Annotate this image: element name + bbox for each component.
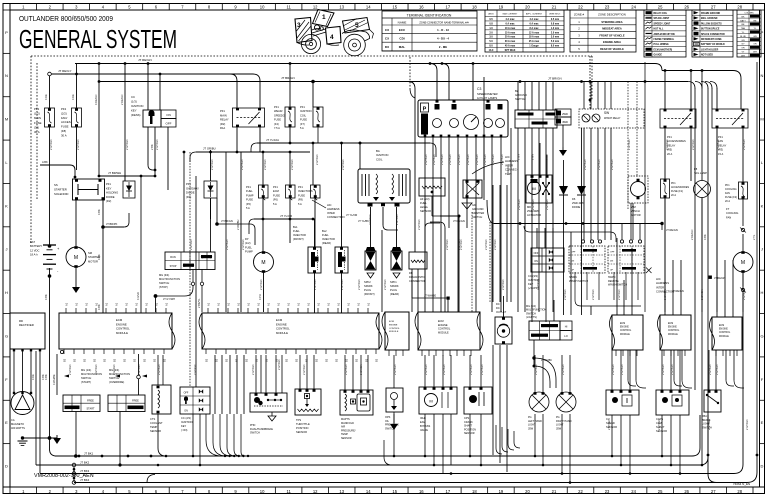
- svg-text:2 GY/GN: 2 GY/GN: [466, 154, 470, 165]
- coil mid wire: [382, 207, 384, 225]
- svg-text:PF1: PF1: [106, 182, 111, 186]
- svg-text:B2: B2: [285, 358, 289, 362]
- winch relay feeds: [583, 82, 585, 110]
- BA feed: [359, 143, 361, 169]
- svg-text:PHN: PHN: [250, 424, 255, 427]
- svg-text:16: 16: [419, 4, 424, 9]
- mid verticals group: [195, 176, 197, 387]
- svg-text:COIL: COIL: [376, 157, 383, 161]
- svg-text:JT BK4: JT BK4: [80, 478, 90, 482]
- wire x445 winch: [444, 228, 446, 312]
- svg-text:2 GY/GN: 2 GY/GN: [742, 289, 746, 300]
- svg-text:JT YL/OR: JT YL/OR: [346, 213, 357, 217]
- B2 feeds: [517, 82, 519, 111]
- svg-text:REAR OF VEHICLE: REAR OF VEHICLE: [600, 47, 624, 51]
- svg-text:M: M: [5, 117, 8, 122]
- svg-text:24: 24: [631, 4, 636, 9]
- svg-text:MAPTS: MAPTS: [341, 418, 350, 421]
- svg-text:CX: CX: [385, 28, 389, 32]
- svg-text:2 GY/GN: 2 GY/GN: [225, 239, 229, 250]
- svg-text:SWITCH: SWITCH: [472, 215, 482, 219]
- svg-text:KEY: KEY: [106, 186, 112, 190]
- svg-text:B2: B2: [133, 358, 137, 362]
- svg-text:ECC: ECC: [399, 28, 406, 32]
- ECM box 4: [612, 315, 643, 350]
- svg-text:SPLICE CONNECTOR: SPLICE CONNECTOR: [701, 34, 725, 36]
- zone dashed vertical left a: [30, 56, 32, 243]
- svg-text:ECM: ECM: [438, 320, 444, 323]
- right long wires: [694, 88, 696, 390]
- svg-text:RECTIFIER: RECTIFIER: [19, 323, 34, 327]
- cooling fan FT: [742, 199, 744, 226]
- spark plug SPK1 rear: [396, 207, 398, 247]
- svg-text:A1: A1: [287, 302, 291, 306]
- svg-text:JT WH/BE: JT WH/BE: [424, 294, 436, 298]
- svg-text:COOLANT: COOLANT: [150, 421, 163, 425]
- svg-text:2 GY/GN: 2 GY/GN: [259, 279, 263, 290]
- wire x430 drop: [425, 223, 432, 228]
- bottom bus junction dots: [192, 455, 195, 458]
- svg-text:23: 23: [605, 489, 610, 494]
- svg-text:2 GY/GN: 2 GY/GN: [531, 199, 535, 210]
- svg-text:D: D: [761, 463, 764, 468]
- svg-text:CONTROL: CONTROL: [620, 330, 632, 332]
- svg-text:(1/2): (1/2): [34, 112, 40, 116]
- svg-text:APPL. CURRENT: APPL. CURRENT: [526, 13, 543, 16]
- svg-text:JT RE/GN: JT RE/GN: [666, 228, 678, 232]
- diagnostic connector DB: [409, 252, 427, 269]
- svg-text:2 BK/YL: 2 BK/YL: [197, 298, 201, 308]
- svg-text:JT BR/PK: JT BR/PK: [106, 222, 118, 226]
- svg-text:28: 28: [737, 4, 742, 9]
- svg-text:TPS: TPS: [296, 418, 301, 422]
- MG 4/4 outputs to lamps: [533, 340, 535, 366]
- svg-text:FAN/: FAN/: [61, 116, 67, 120]
- svg-text:NAME: NAME: [398, 20, 407, 24]
- svg-text:(F8): (F8): [298, 198, 303, 202]
- ECM main box B: [202, 313, 379, 349]
- table zone description: [570, 10, 636, 52]
- svg-text:13: 13: [339, 4, 344, 9]
- svg-text:SPLICE JOINT: SPLICE JOINT: [654, 18, 670, 20]
- svg-text:FUEL: FUEL: [245, 245, 252, 249]
- svg-text:2 GY/GN: 2 GY/GN: [424, 364, 428, 375]
- svg-text:MODULE: MODULE: [438, 331, 449, 334]
- svg-text:JT BR/GN: JT BR/GN: [281, 76, 295, 80]
- wires key drop: [147, 63, 149, 110]
- bus JT BR/GN upper: [99, 81, 408, 83]
- svg-text:FUEL: FUEL: [322, 233, 329, 237]
- svg-text:2 GY/GN: 2 GY/GN: [657, 419, 661, 430]
- svg-text:PF1: PF1: [246, 185, 251, 189]
- svg-text:DN: DN: [571, 261, 575, 263]
- svg-text:22: 22: [578, 4, 583, 9]
- module row bottom pin ticks: [388, 350, 390, 356]
- svg-text:2 GY/GN: 2 GY/GN: [742, 139, 746, 150]
- fuse PF1 accessories fuse: [661, 179, 670, 198]
- svg-text:& PILOT LAMPS: & PILOT LAMPS: [477, 96, 497, 100]
- svg-text:VALVE: VALVE: [420, 428, 428, 432]
- svg-text:A1: A1: [165, 302, 169, 306]
- svg-text:ON: ON: [534, 260, 538, 263]
- svg-text:2 GY/GN: 2 GY/GN: [340, 279, 344, 290]
- svg-text:2 GY/GN: 2 GY/GN: [561, 364, 565, 375]
- svg-text:B2: B2: [235, 358, 239, 362]
- svg-text:PRESSURE/: PRESSURE/: [341, 429, 356, 432]
- svg-text:2 GY/GN: 2 GY/GN: [383, 279, 387, 290]
- svg-text:2 GY/GN: 2 GY/GN: [745, 419, 749, 430]
- svg-text:K: K: [761, 203, 764, 208]
- svg-text:10 A max: 10 A max: [505, 27, 516, 30]
- svg-text:B2: B2: [265, 358, 269, 362]
- svg-text:J: J: [6, 247, 8, 252]
- svg-text:LEVEL: LEVEL: [420, 205, 429, 209]
- svg-text:R1A: R1A: [220, 126, 225, 130]
- bus secondary right mid: [530, 231, 610, 233]
- svg-text:14: 14: [366, 489, 371, 494]
- svg-text:KEY: KEY: [528, 282, 533, 286]
- svg-text:A1: A1: [317, 302, 321, 306]
- svg-text:SENSOR: SENSOR: [420, 209, 431, 213]
- svg-text:5 A: 5 A: [246, 206, 250, 210]
- wire x511 long: [510, 128, 512, 302]
- junction square JT RE/GN right: [709, 276, 712, 279]
- svg-text:K: K: [5, 203, 8, 208]
- svg-text:4 - DX - 4: 4 - DX - 4: [437, 37, 449, 41]
- svg-text:(F4): (F4): [274, 122, 279, 126]
- svg-text:2WD: 2WD: [562, 112, 568, 116]
- svg-text:3.0 mm: 3.0 mm: [551, 36, 559, 39]
- svg-text:2 GY/GN: 2 GY/GN: [517, 199, 521, 210]
- svg-text:B2: B2: [83, 358, 87, 362]
- winch rocker switch SWRN: [569, 246, 605, 273]
- wire feed solenoid horizontal: [40, 164, 70, 166]
- svg-text:B2: B2: [325, 358, 329, 362]
- svg-text:MAX CURRENT: MAX CURRENT: [503, 13, 518, 16]
- svg-text:OFF: OFF: [166, 122, 172, 126]
- svg-text:LIGHT: LIGHT: [556, 424, 564, 427]
- svg-text:OFF: OFF: [610, 252, 615, 254]
- svg-text:PF1: PF1: [186, 182, 191, 186]
- svg-text:PF1: PF1: [725, 184, 730, 187]
- svg-text:FT: FT: [726, 207, 730, 211]
- svg-text:JT RE/GN: JT RE/GN: [714, 277, 726, 280]
- svg-text:HIC: HIC: [327, 203, 332, 207]
- svg-text:2 GY/GN: 2 GY/GN: [210, 159, 214, 170]
- svg-text:PF1: PF1: [667, 135, 672, 139]
- svg-text:SPK2: SPK2: [364, 280, 371, 284]
- svg-text:B2: B2: [93, 358, 97, 362]
- svg-text:JT BR/WH: JT BR/WH: [108, 171, 121, 175]
- svg-text:MODULE: MODULE: [389, 331, 399, 333]
- svg-text:FAN: FAN: [726, 215, 731, 219]
- svg-text:CONTROL: CONTROL: [438, 328, 451, 331]
- svg-text:SWITCH: SWITCH: [526, 312, 536, 315]
- starter motor SM: [66, 247, 86, 267]
- svg-text:5: 5: [355, 22, 359, 29]
- svg-text:MAL: MAL: [399, 45, 406, 49]
- svg-text:A1: A1: [367, 302, 371, 306]
- svg-text:A1: A1: [277, 302, 281, 306]
- ECM box 5: [660, 315, 691, 350]
- svg-text:1 - D - 13: 1 - D - 13: [437, 28, 449, 32]
- svg-text:B2: B2: [73, 358, 77, 362]
- svg-text:ENGINE: ENGINE: [620, 327, 629, 329]
- svg-text:PUMP: PUMP: [245, 250, 253, 254]
- svg-text:2 RE/GN: 2 RE/GN: [690, 229, 694, 240]
- svg-text:2 GY/GN: 2 GY/GN: [707, 419, 711, 430]
- svg-text:HARNESS: HARNESS: [656, 281, 669, 285]
- svg-text:B2: B2: [295, 358, 299, 362]
- svg-text:DIAGNOSTIC: DIAGNOSTIC: [409, 275, 425, 279]
- svg-text:ECM: ECM: [389, 321, 394, 323]
- svg-text:ENGINE: ENGINE: [438, 324, 448, 327]
- svg-text:6 A max: 6 A max: [530, 22, 540, 25]
- riser curves nested mid: [496, 425, 502, 454]
- svg-text:B2: B2: [515, 89, 519, 93]
- bus JT RE/GN top: [75, 63, 655, 65]
- svg-text:D: D: [5, 463, 8, 468]
- svg-text:FUSE: FUSE: [34, 121, 42, 125]
- lamp PG left headlight: [529, 392, 549, 412]
- svg-text:SPEEDY JOINT: SPEEDY JOINT: [654, 23, 671, 25]
- svg-text:MODULE: MODULE: [719, 336, 729, 338]
- svg-text:JT OR/BU: JT OR/BU: [203, 147, 216, 151]
- svg-text:MODULE: MODULE: [116, 331, 128, 335]
- svg-text:BAT: BAT: [30, 240, 35, 244]
- svg-text:ENGINE: ENGINE: [719, 329, 728, 331]
- svg-text:8 A max: 8 A max: [530, 27, 540, 30]
- wire column x241: [240, 152, 242, 312]
- svg-text:12 A max: 12 A max: [529, 31, 540, 34]
- svg-text:P: P: [5, 30, 8, 35]
- svg-text:20: 20: [525, 4, 530, 9]
- svg-text:A1: A1: [105, 302, 109, 306]
- svg-text:ACCES.: ACCES.: [61, 120, 72, 124]
- svg-text:MOTOR: MOTOR: [631, 213, 641, 217]
- relay PF1 accessories (R5): [660, 109, 696, 128]
- svg-text:JT YL/10A: JT YL/10A: [266, 138, 279, 142]
- bottom bus JT BK1: [55, 455, 692, 457]
- svg-text:RELAY: RELAY: [220, 118, 229, 122]
- svg-text:2 GY/GN: 2 GY/GN: [534, 364, 538, 375]
- svg-text:2 GY/GN: 2 GY/GN: [611, 364, 615, 375]
- svg-text:12 VDC: 12 VDC: [30, 248, 39, 252]
- B2 drops: [517, 128, 519, 185]
- svg-text:(START): (START): [81, 380, 91, 384]
- svg-text:J: J: [761, 247, 763, 252]
- svg-text:EAV: EAV: [420, 420, 425, 424]
- svg-text:GD: GD: [472, 203, 476, 207]
- selector 2WD/4WD: [555, 109, 571, 117]
- svg-text:JT BK1: JT BK1: [84, 451, 94, 455]
- svg-text:6 A max: 6 A max: [506, 22, 516, 25]
- svg-text:2 GY/GN: 2 GY/GN: [440, 154, 444, 165]
- svg-text:MULTIFUNCTION: MULTIFUNCTION: [159, 277, 180, 281]
- svg-text:(REAR): (REAR): [390, 292, 399, 296]
- svg-text:SPK1: SPK1: [390, 280, 397, 284]
- svg-text:JT BR/GN: JT BR/GN: [221, 219, 233, 223]
- svg-text:22: 22: [578, 489, 583, 494]
- svg-text:OIL: OIL: [385, 420, 390, 423]
- svg-text:2 GY/GN: 2 GY/GN: [368, 214, 372, 225]
- svg-text:2 YL: 2 YL: [752, 234, 756, 240]
- zone dashed vertical left b: [36, 63, 38, 200]
- svg-text:2 GY/GN: 2 GY/GN: [469, 364, 473, 375]
- svg-text:15: 15: [392, 4, 397, 9]
- svg-text:JT RE/GN: JT RE/GN: [672, 289, 684, 293]
- svg-text:SPEEDO: SPEEDO: [274, 113, 285, 117]
- svg-text:2 GY/GN: 2 GY/GN: [241, 239, 245, 250]
- svg-text:2 GY/GN: 2 GY/GN: [359, 364, 363, 375]
- svg-text:E: E: [761, 420, 764, 425]
- svg-text:2 GY/GN: 2 GY/GN: [189, 239, 193, 250]
- table legend symbols A: [644, 10, 686, 57]
- dual beam switch PHN: [250, 393, 287, 412]
- svg-text:POSITION: POSITION: [296, 426, 309, 430]
- svg-text:GENERAL SYSTEM: GENERAL SYSTEM: [19, 24, 177, 54]
- svg-text:GROUND: GROUND: [472, 207, 484, 211]
- svg-text:HIC: HIC: [656, 277, 661, 281]
- svg-text:H: H: [5, 290, 8, 295]
- dashed vertical below GD: [471, 212, 473, 312]
- svg-text:19: 19: [499, 489, 504, 494]
- svg-text:20 A: 20 A: [667, 152, 672, 156]
- svg-text:SPARK: SPARK: [390, 284, 399, 288]
- diode D5: [559, 186, 568, 195]
- svg-text:13.0: 13.0: [489, 49, 494, 52]
- svg-text:B2: B2: [205, 358, 209, 362]
- svg-text:A1: A1: [267, 302, 271, 306]
- svg-text:CONTROL: CONTROL: [719, 332, 731, 334]
- winch remote switch SWPC: [608, 246, 644, 273]
- bottom bus JT BK2: [36, 464, 700, 466]
- svg-text:TEMP: TEMP: [341, 433, 348, 436]
- svg-text:SWITCH: SWITCH: [515, 97, 526, 101]
- svg-text:BATTERY: BATTERY: [30, 244, 42, 248]
- svg-text:SENSOR: SENSOR: [464, 432, 475, 435]
- svg-text:2 - ME: 2 - ME: [439, 45, 447, 49]
- svg-text:ENGINE: ENGINE: [668, 327, 677, 329]
- svg-text:STARTER: STARTER: [54, 187, 67, 191]
- svg-text:CONTROL: CONTROL: [668, 330, 680, 332]
- svg-text:25: 25: [658, 489, 663, 494]
- svg-text:FREE: FREE: [132, 399, 139, 402]
- svg-text:WEAR/: WEAR/: [274, 109, 283, 113]
- svg-text:4 RE: 4 RE: [31, 374, 35, 380]
- svg-text:INJECTOR: INJECTOR: [322, 237, 335, 241]
- svg-text:2 GY/GN: 2 GY/GN: [341, 159, 345, 170]
- svg-text:13: 13: [339, 489, 344, 494]
- svg-text:IGNITION: IGNITION: [181, 420, 193, 424]
- svg-text:PG: PG: [556, 416, 560, 419]
- svg-text:MG (3/4): MG (3/4): [159, 273, 169, 277]
- svg-text:HARNESS: HARNESS: [505, 159, 518, 163]
- svg-text:4 PU: 4 PU: [258, 294, 262, 300]
- svg-text:A1: A1: [327, 302, 331, 306]
- svg-text:2 GY/GN: 2 GY/GN: [49, 139, 53, 150]
- crank position sensor CPS: [464, 387, 492, 414]
- svg-text:ECM: ECM: [719, 325, 724, 327]
- FBA drop to bus4: [707, 414, 709, 474]
- svg-text:LO: LO: [564, 334, 567, 338]
- svg-text:2 GY/GN: 2 GY/GN: [315, 154, 319, 165]
- svg-text:(FRONT): (FRONT): [293, 237, 304, 241]
- svg-text:19: 19: [499, 4, 504, 9]
- svg-text:ON: ON: [166, 113, 171, 117]
- svg-text:2 GY/GN: 2 GY/GN: [536, 279, 540, 290]
- spark plug SPK2 front: [370, 207, 372, 247]
- svg-text:4 BK: 4 BK: [703, 234, 707, 240]
- svg-text:2 GY/GN: 2 GY/GN: [475, 154, 479, 165]
- winch switch drops: [574, 272, 576, 300]
- svg-text:2 GY/GN: 2 GY/GN: [137, 364, 141, 375]
- magneto CA: [11, 392, 34, 415]
- svg-text:GAUGE: GAUGE: [654, 54, 663, 57]
- ECM bottom bundle to risers: [214, 355, 216, 414]
- svg-text:2 GY/GN: 2 GY/GN: [155, 139, 159, 150]
- svg-text:B2: B2: [375, 358, 379, 362]
- svg-text:2 GY/GN: 2 GY/GN: [583, 159, 587, 170]
- svg-text:2 GY/GN: 2 GY/GN: [607, 419, 611, 430]
- svg-text:A1: A1: [237, 302, 241, 306]
- svg-text:SENSOR: SENSOR: [296, 430, 307, 434]
- svg-text:UP: UP: [571, 270, 575, 272]
- junction ring x138: [137, 375, 141, 379]
- svg-text:15 A: 15 A: [718, 152, 723, 156]
- svg-text:AWG: AWG: [488, 13, 493, 16]
- svg-text:A1: A1: [115, 302, 119, 306]
- ground adapter switch GD: [463, 180, 482, 198]
- idle bypass valve IDLE: [419, 387, 457, 414]
- svg-text:CC (3/3): CC (3/3): [528, 274, 538, 278]
- svg-text:OFF: OFF: [534, 252, 539, 255]
- wire drops to buses: [192, 414, 194, 456]
- oil pressure switch OPS: [386, 388, 403, 412]
- svg-text:35W: 35W: [528, 427, 534, 430]
- svg-text:INJECTOR: INJECTOR: [293, 233, 306, 237]
- svg-text:15 A max: 15 A max: [505, 31, 516, 34]
- svg-text:OPS: OPS: [385, 416, 391, 419]
- ECM pin ticks: [65, 308, 67, 313]
- svg-text:28: 28: [737, 489, 742, 494]
- diode D6 2WD 4WD diode: [577, 186, 586, 195]
- svg-text:20 A: 20 A: [671, 194, 676, 197]
- svg-text:2 GY/GN: 2 GY/GN: [125, 139, 129, 150]
- actuator motor MD 2WD/4WD: [526, 175, 552, 203]
- svg-text:5 A: 5 A: [298, 202, 302, 206]
- ECM main box A: [59, 313, 172, 349]
- svg-text:B2: B2: [355, 358, 359, 362]
- svg-text:STEERING AREA: STEERING AREA: [601, 20, 622, 24]
- svg-text:BATTERY OF WORLD: BATTERY OF WORLD: [701, 43, 725, 46]
- svg-text:45 A max: 45 A max: [505, 45, 516, 48]
- svg-text:2 GY/GN: 2 GY/GN: [480, 364, 484, 375]
- svg-text:SS: SS: [54, 183, 58, 187]
- svg-text:JT BK2: JT BK2: [80, 461, 90, 465]
- svg-text:B2: B2: [143, 358, 147, 362]
- svg-text:BL2: BL2: [322, 229, 327, 233]
- svg-text:2 GY/GN: 2 GY/GN: [700, 289, 704, 300]
- svg-text:2 GY/GN: 2 GY/GN: [344, 364, 348, 375]
- svg-text:2 GY/GN: 2 GY/GN: [157, 364, 161, 375]
- bus right top corner dots: [664, 69, 667, 72]
- svg-text:2 GY/GN: 2 GY/GN: [432, 154, 436, 165]
- svg-text:OFF: OFF: [571, 252, 576, 254]
- svg-text:2 GY/GN: 2 GY/GN: [94, 364, 98, 375]
- svg-text:TAIL LAMP: TAIL LAMP: [694, 171, 707, 175]
- svg-text:SPEEDOMETER: SPEEDOMETER: [477, 92, 498, 96]
